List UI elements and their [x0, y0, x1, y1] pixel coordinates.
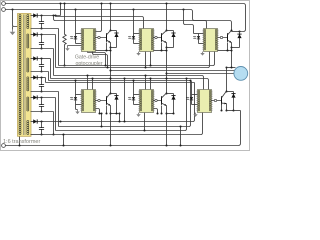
wire LED 1 anode stub	[76, 33, 82, 35]
wire u3 LED drop x81.0	[75, 81, 77, 95]
wire Q1 collector riser	[110, 4, 112, 31]
wire Q2 emitter down	[166, 43, 168, 74]
diode DF2	[171, 33, 175, 37]
pin output 1	[98, 36, 100, 38]
wire secondary 4 lower	[31, 91, 59, 93]
wire col rect4+ to u4	[45, 78, 47, 83]
wire t1 riser x139.0	[150, 52, 152, 66]
junction u2 x139.0	[149, 77, 151, 79]
junction Q6 collector	[225, 90, 227, 92]
junction hA tap	[54, 14, 56, 16]
junction bus vcc1	[100, 2, 102, 4]
diode D1	[33, 13, 37, 17]
wire LED 5 anode stub	[134, 94, 140, 96]
wire diode 2 bottom tie	[167, 47, 174, 49]
junction b4 right	[62, 133, 64, 135]
junction emitter diode tie 2	[165, 46, 167, 48]
terminal input top	[2, 2, 6, 6]
LED opto input 6	[191, 95, 193, 98]
junction rectifier 2 output	[40, 33, 42, 35]
junction bus col1	[59, 2, 61, 4]
wire col rect3+ to u2	[50, 59, 52, 79]
wire col rect2+ to t2	[55, 35, 57, 68]
wire supply t2	[56, 52, 210, 68]
diode D4	[33, 75, 37, 79]
wire DC- bottom bus	[6, 111, 241, 146]
wire diode 4 top tie	[111, 93, 117, 95]
wire LED 3 feed	[184, 10, 194, 34]
wire LED 6 cathode	[192, 104, 198, 106]
wire phase C	[227, 67, 236, 69]
junction phase leg 2	[165, 72, 167, 74]
junction emitter diode tie 3	[230, 46, 232, 48]
wire rectifier 2 output	[38, 34, 56, 36]
wire supply t1	[59, 52, 215, 66]
wire diode 5 body	[173, 94, 175, 114]
wire diode 4 bottom tie	[111, 113, 120, 115]
junction b4 bus	[62, 144, 64, 146]
wire base return 3	[227, 43, 229, 51]
wire loop b3	[56, 79, 187, 131]
wire rectifier 5 output	[38, 97, 56, 99]
junction Q4 collector	[109, 92, 111, 94]
wire cap 2 column	[41, 35, 43, 49]
transformer secondary winding 4	[27, 77, 29, 79]
wire col rect3- to u3	[48, 72, 50, 81]
junction L2 LED 2	[132, 8, 134, 10]
junction L2 primary	[11, 8, 13, 10]
wire secondary 4 upper	[31, 77, 34, 79]
wire primary gnd stem	[12, 27, 14, 30]
junction b3 x144	[143, 129, 145, 131]
wire u3 LED drop x139.0	[133, 81, 135, 95]
junction u2 x124	[123, 77, 125, 79]
wire Q2 collector riser	[166, 4, 168, 31]
capacitor C3	[39, 65, 44, 67]
optocoupler U5	[140, 90, 154, 113]
junction bus emitter 4	[109, 144, 111, 146]
junction wrap diode3	[238, 30, 240, 32]
junction L2 LED 1	[74, 8, 76, 10]
junction vee 5	[156, 112, 158, 114]
junction t1 cell1	[104, 64, 106, 66]
wire rectifier 1 output	[38, 15, 61, 17]
optocoupler U4	[82, 90, 96, 113]
wire gnd stub cell 6	[195, 112, 197, 114]
junction Q3 collector	[230, 29, 232, 31]
svg-text:1:6 transformer: 1:6 transformer	[3, 139, 40, 145]
transformer secondary winding 1	[27, 15, 29, 17]
junction u3 x81.0	[74, 79, 76, 81]
diode D6	[33, 119, 37, 123]
pin output 6	[214, 99, 216, 101]
capacitor C4	[39, 85, 44, 87]
transformer T1 1:6 body	[18, 14, 32, 137]
wire supply u2	[51, 79, 209, 90]
wire loop b2	[59, 81, 191, 127]
junction u2 x81.0	[91, 77, 93, 79]
wire col rect4- to b2	[58, 92, 60, 127]
junction cap 5 bottom	[40, 110, 42, 112]
wire Q5 collector riser	[166, 74, 168, 94]
wire base return 6	[221, 104, 223, 111]
LED opto input 2	[133, 34, 135, 37]
transformer core	[23, 15, 25, 136]
junction u2 leg 5	[165, 77, 167, 79]
transistor Q2	[161, 33, 163, 42]
wire col rect2- to u1	[53, 49, 55, 76]
diode DF3	[237, 34, 241, 38]
wire rectifier 3 output	[38, 58, 51, 60]
transformer secondary winding 2	[27, 34, 29, 36]
pin output 5	[155, 99, 157, 101]
wire diode 2 top tie	[167, 30, 174, 32]
wire resistor top	[64, 4, 66, 35]
wire Q6 emitter down	[226, 104, 228, 111]
junction rectifier 4 output	[40, 76, 42, 78]
wire resistor bottom	[64, 45, 66, 66]
junction phase C Q3	[230, 66, 232, 68]
junction diode 5 bottom	[172, 112, 174, 114]
wire secondary 2 upper	[31, 34, 34, 36]
wire t2 riser x139.0	[145, 52, 147, 68]
junction emitter diode tie 5	[165, 112, 167, 114]
wire primary tap	[13, 10, 18, 27]
wire base return 2	[161, 43, 163, 51]
junction cap 3 bottom	[40, 70, 42, 72]
wire cap 1 column	[41, 16, 43, 29]
wire diode 6 bottom tie	[227, 110, 234, 112]
wire feed hA to U2	[56, 16, 144, 29]
capacitor C2	[39, 43, 44, 45]
LED opto input 4	[75, 95, 77, 98]
diode DF5	[171, 96, 175, 100]
capacitor C1	[39, 22, 44, 24]
junction phase leg 1	[109, 69, 111, 71]
resistor R1	[63, 34, 66, 44]
junction resistor t1	[63, 64, 65, 66]
svg-text:optocoupler: optocoupler	[75, 61, 102, 67]
junction tie4 x101	[100, 112, 102, 114]
wire secondary 6 upper	[31, 121, 34, 123]
cap masks	[39, 22, 44, 23]
wire LED 2 anode stub	[134, 33, 140, 35]
transformer primary winding	[19, 15, 21, 17]
wire Q3 collector riser	[231, 29, 233, 31]
junction u1 x81.0	[86, 74, 88, 76]
junction vee 3	[230, 49, 232, 51]
wire gnd stub cell 2	[138, 51, 140, 53]
junction b2-u3	[189, 79, 191, 81]
diode DF4	[114, 96, 118, 100]
junction u2 leg 4	[109, 77, 111, 79]
junction b4 col	[52, 133, 54, 135]
junction cap 6 bottom	[40, 133, 42, 135]
wire drive line L2	[6, 10, 232, 29]
wire u1 drop x81.0	[87, 76, 89, 90]
junction bus Q1	[109, 2, 111, 4]
transistor Q1	[106, 33, 108, 42]
optocoupler U3	[204, 29, 218, 52]
junction Q5 collector	[165, 92, 167, 94]
wire b1 riser cell4	[119, 114, 121, 122]
junction base return 2	[160, 49, 162, 51]
transistor Q5	[161, 96, 163, 105]
wire supply u4	[46, 82, 195, 84]
junction t2 cell1	[106, 66, 108, 68]
wire supply u3	[49, 81, 192, 95]
wire secondary 5 lower	[31, 111, 54, 113]
junction vee 1	[109, 49, 111, 51]
wire rectifier 4 output	[38, 77, 46, 79]
wire diode 1 body	[116, 31, 118, 48]
wire secondary 3 lower	[31, 71, 49, 73]
wire supply u1	[54, 76, 204, 90]
junction hB tap	[52, 14, 54, 16]
wire col rect5+ to b3	[55, 98, 57, 131]
wire opto1 vcc wrap	[96, 4, 102, 32]
wire Q3 emitter down	[231, 43, 233, 68]
wire phase A	[111, 70, 236, 72]
wire u2 drop x139.0	[150, 79, 152, 90]
wire opto 5 vee tie	[154, 109, 158, 114]
LED opto input 1	[75, 34, 77, 37]
svg-text:Gate-drive: Gate-drive	[75, 55, 99, 61]
junction b1 x119	[118, 120, 120, 122]
wire secondary 1 upper	[31, 15, 34, 17]
wire base return 1	[106, 43, 108, 51]
junction vee 2	[165, 49, 167, 51]
wire gnd stub cell 5	[138, 112, 140, 114]
junction diode 6 bottom	[232, 109, 234, 111]
transformer secondary winding 6	[27, 121, 29, 123]
wire gnd stub cell 4	[76, 105, 78, 110]
wire opto 4 vee tie	[96, 109, 100, 114]
junction tie4 x119	[118, 112, 120, 114]
wire col rect1+ to bus	[60, 4, 62, 16]
wire secondary 3 upper	[31, 58, 34, 60]
junction rectifier 1 output	[40, 14, 42, 16]
junction base return 1	[105, 49, 107, 51]
wire b2 riser cell4	[101, 114, 103, 127]
wire loop b1	[44, 83, 195, 122]
diode D5	[33, 95, 37, 99]
junction bus emitter 5	[165, 144, 167, 146]
transistor Q3	[227, 33, 229, 42]
junction b1 col	[59, 120, 61, 122]
junction Q2 collector	[165, 29, 167, 31]
wire secondary 1 lower	[31, 28, 59, 30]
junction base return 5	[160, 112, 162, 114]
ground opto 2	[138, 52, 140, 53]
junction b2 x101	[100, 125, 102, 127]
wire Q6 collector riser	[226, 68, 228, 92]
capacitor C5	[39, 105, 44, 107]
wire cap 5 column	[41, 98, 43, 112]
wire primary bottom drop	[19, 136, 21, 146]
wire LED 1 feed	[75, 10, 77, 34]
junction cap 2 bottom	[40, 47, 42, 49]
ground primary	[12, 29, 14, 32]
wire emitter6 to bus corner	[234, 110, 241, 112]
wire Q1 emitter down	[110, 43, 112, 71]
wire opto 3 vee tie	[218, 50, 232, 52]
wire LED 2 feed	[133, 10, 135, 34]
wire gnd stub cell 3	[202, 51, 204, 53]
pin output 4	[98, 99, 100, 101]
wire loop b4 right	[64, 113, 203, 135]
junction primary bottom	[18, 144, 20, 146]
wire cap 3 column	[41, 59, 43, 72]
LED opto input 3	[198, 34, 200, 37]
ground opto 4	[77, 109, 79, 111]
junction cap 4 bottom	[40, 90, 42, 92]
wire diode 5 bottom tie	[167, 113, 174, 115]
wire rectifier 6 output	[38, 121, 44, 123]
wire opto 1 vee tie	[96, 50, 111, 52]
terminal input mid	[2, 8, 6, 12]
junction rectifier 6 output	[40, 120, 42, 122]
junction base return 3	[226, 49, 228, 51]
junction rectifier 3 output	[40, 57, 42, 59]
wire Q4 emitter down	[110, 106, 112, 146]
wire cap 6 column	[41, 122, 43, 135]
pin output 3	[220, 36, 222, 38]
capacitor C6	[39, 128, 44, 130]
junction t1 x139.0	[149, 64, 151, 66]
wire base return 5	[161, 106, 163, 114]
wire diode 6 body	[233, 92, 235, 111]
junction phase leg 3	[225, 66, 227, 68]
junction base return 6	[220, 109, 222, 111]
wire LED 4 cathode	[76, 104, 82, 106]
wire LED 2 cathode	[134, 43, 140, 45]
wire diode 3 top tie	[232, 31, 240, 33]
junction b3-u2	[185, 77, 187, 79]
junction vee 4	[98, 112, 100, 114]
junction b2 x180	[179, 125, 181, 127]
wire u2-b1 riser	[124, 79, 126, 122]
junction bus Q2	[165, 2, 167, 4]
junction bus resistor	[63, 2, 65, 4]
wire U1 supply b	[93, 52, 108, 68]
wire base return 4	[106, 106, 108, 114]
diode DF1	[114, 33, 118, 37]
junction base return 4	[105, 112, 107, 114]
junction b1 x124	[123, 120, 125, 122]
terminal input bottom	[2, 144, 6, 148]
wire diode 2 body	[173, 31, 175, 48]
transformer secondary winding 5	[27, 97, 29, 99]
wire LED 3 cathode	[199, 43, 204, 45]
ground opto 5	[138, 113, 140, 115]
transistor Q4	[106, 96, 108, 105]
transistor Q6	[221, 96, 223, 105]
wire LED 6 anode stub	[192, 94, 198, 96]
diode DF6	[231, 94, 235, 98]
junction emitter diode tie 6	[225, 109, 227, 111]
wire secondary 2 lower	[31, 48, 54, 50]
wire diode 6 top tie	[227, 91, 234, 93]
wire diode 5 top tie	[167, 93, 174, 95]
wire phase B	[167, 73, 236, 75]
wire b2 drop to bus	[180, 127, 182, 146]
wire secondary 5 upper	[31, 97, 34, 99]
wire Q5 emitter down	[166, 106, 168, 146]
diode D2	[33, 32, 37, 36]
ground opto 6	[195, 113, 197, 115]
junction u1 x139.0	[144, 74, 146, 76]
wire u1 drop x139.0	[145, 76, 147, 90]
diode D3	[33, 56, 37, 60]
motor M	[234, 67, 248, 81]
wire opto 2 vee tie	[154, 50, 167, 52]
junction emitter diode tie 4	[109, 112, 111, 114]
junction diode 4 bottom	[115, 112, 117, 114]
wire b3 riser cell5	[144, 113, 146, 131]
wire diode 1 bottom tie	[111, 47, 117, 49]
transformer secondary winding 3	[27, 58, 29, 60]
ground opto 3	[202, 52, 204, 53]
LED opto input 5	[133, 95, 135, 98]
junction Q1 collector	[109, 29, 111, 31]
optocoupler U2	[140, 29, 154, 52]
wire LED 4 anode stub	[76, 94, 82, 96]
wire secondary 6 lower	[31, 134, 44, 136]
wire col rect5- to b4	[53, 112, 55, 135]
wire cap 4 column	[41, 78, 43, 92]
wire DC+ top bus	[6, 4, 246, 32]
wire gnd stub cell 1	[68, 46, 82, 47]
wire diode 4 body	[116, 94, 118, 114]
wire diode 1 top tie	[111, 30, 117, 32]
wire LED 1 cathode	[76, 43, 82, 45]
wire feed hB to U3	[54, 16, 207, 29]
wire u2 drop x81.0	[92, 79, 94, 90]
ground opto 1	[67, 46, 69, 48]
junction cap 1 bottom	[40, 27, 42, 29]
wire LED 3 feed2	[194, 33, 199, 35]
wire diode 3 bottom tie	[232, 47, 240, 49]
junction t2 x139.0	[144, 66, 146, 68]
optocoupler U1	[82, 29, 96, 52]
junction u3 x139.0	[132, 79, 134, 81]
wire diode 3 body	[239, 32, 241, 48]
wire LED 3 anode stub	[199, 33, 204, 35]
junction rectifier 5 output	[40, 96, 42, 98]
wire col rect1- to t1	[58, 29, 60, 66]
optocoupler U6	[198, 90, 212, 113]
junction emitter diode tie 1	[109, 46, 111, 48]
junction L2 LED 3	[182, 8, 184, 10]
wire Q4 collector riser	[110, 71, 112, 94]
wire LED 5 cathode	[134, 104, 140, 106]
wire U1 supply a	[88, 52, 106, 66]
pin output 2	[155, 36, 157, 38]
junction bus x180	[179, 144, 181, 146]
wire loop b4 to bus	[44, 135, 64, 146]
